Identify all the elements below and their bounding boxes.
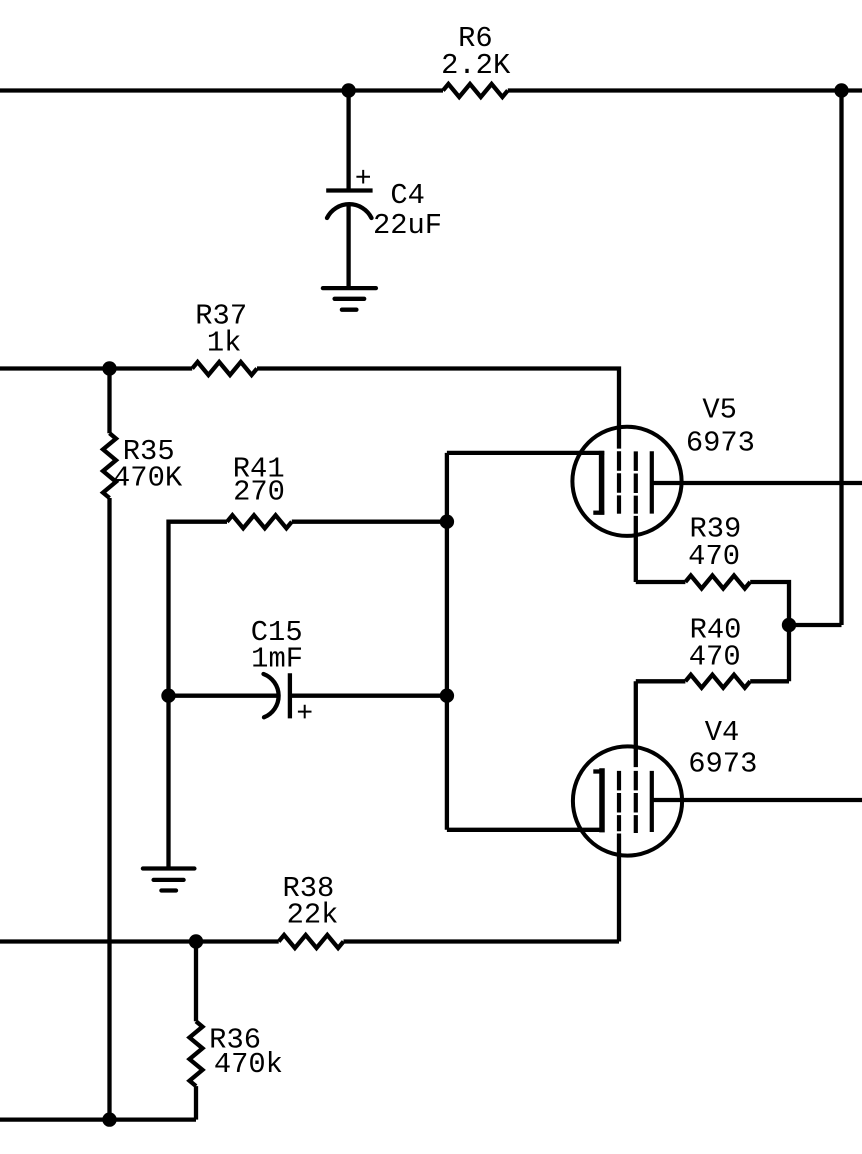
ground C4 — [323, 288, 376, 310]
wire R38 rail right — [344, 939, 620, 943]
node top C4 junction — [341, 83, 355, 97]
node top right junction — [834, 83, 848, 97]
wire C4 to ground — [346, 205, 350, 289]
tube V4 plate — [650, 771, 654, 832]
tube V5 grid2 (dashed) — [634, 451, 638, 513]
tube V4 envelope — [573, 746, 682, 855]
resistor R6 — [443, 84, 508, 97]
wire top rail left — [0, 88, 443, 92]
resistor R36 — [190, 1021, 203, 1086]
wire R39 right corner down — [750, 582, 789, 681]
node R37/R35 junction — [102, 361, 116, 375]
wire right vertical rail — [839, 91, 843, 626]
svg-text:1k: 1k — [207, 327, 242, 360]
wire V5 plate lead — [652, 481, 862, 485]
svg-text:V5: V5 — [702, 394, 737, 427]
wire junction to right rail — [789, 623, 842, 627]
wire V5 grid2 down to R39 — [634, 516, 638, 582]
svg-text:22uF: 22uF — [373, 209, 442, 242]
svg-text:22k: 22k — [287, 898, 339, 931]
resistor R41 — [227, 515, 292, 528]
tube V5 cathode bracket — [593, 451, 604, 515]
wire R40 down to V4 — [634, 681, 638, 767]
wire R41 left corner — [169, 522, 228, 696]
tube V4 grid1 (dashed) — [617, 771, 621, 831]
wire bottom rail — [0, 1117, 196, 1121]
tube V4 grid2 (dashed, from R40) — [634, 771, 638, 833]
svg-text:6973: 6973 — [686, 427, 755, 460]
wire R35 top — [107, 369, 111, 434]
tube V5 grid1 (dashed, to R37) — [617, 451, 621, 514]
node C15 left junction — [161, 689, 175, 703]
tube V5 envelope — [572, 427, 681, 536]
resistor R37 — [192, 362, 257, 375]
resistor R40 — [685, 675, 750, 688]
wire R40 right — [750, 679, 789, 683]
tube V5 plate — [650, 451, 654, 513]
wire R35 bottom long — [107, 498, 111, 1120]
wire R36 top — [194, 942, 198, 1022]
tube V4 cathode bracket — [593, 768, 604, 832]
wire R39 left — [636, 580, 686, 584]
node bottom rail junction — [102, 1112, 116, 1126]
resistor R39 — [685, 576, 750, 589]
capacitor C4 — [326, 170, 372, 218]
wire V4 grid1 down to R38 — [617, 834, 621, 942]
wire R37 to V5 grid — [257, 369, 619, 449]
svg-text:470K: 470K — [113, 462, 183, 495]
svg-text:470: 470 — [688, 540, 740, 573]
svg-text:V4: V4 — [705, 716, 740, 749]
node R38/R36 junction — [189, 934, 203, 948]
wire R41 right — [292, 520, 447, 524]
wire C15 right — [290, 694, 447, 698]
svg-text:2.2K: 2.2K — [441, 49, 511, 82]
wire R36 bottom — [194, 1086, 198, 1120]
resistor R35 — [103, 433, 116, 498]
svg-text:C4: C4 — [390, 179, 425, 212]
wire R38 rail left — [0, 939, 279, 943]
resistor R38 — [279, 935, 344, 948]
node R39/R40 junction — [782, 618, 796, 632]
wire V4 plate lead — [652, 798, 862, 802]
wire top rail right — [508, 88, 862, 92]
wire left grid bus — [445, 453, 449, 830]
wire C4 branch — [346, 91, 350, 191]
wire R37 rail left — [0, 366, 192, 370]
wire R40 left — [636, 679, 686, 683]
node R41 junction — [440, 515, 454, 529]
ground C15 — [143, 869, 195, 891]
svg-text:1mF: 1mF — [251, 643, 303, 676]
wire C15 left — [169, 694, 278, 698]
wire V5 left lead — [447, 451, 604, 455]
svg-text:6973: 6973 — [688, 747, 757, 780]
capacitor C15 — [264, 673, 312, 718]
wire V4 left lead — [447, 828, 604, 832]
node C15 right junction — [440, 689, 454, 703]
wire C15 to ground — [166, 696, 170, 869]
svg-text:470k: 470k — [214, 1048, 283, 1081]
svg-text:270: 270 — [233, 476, 285, 509]
svg-text:470: 470 — [689, 641, 741, 674]
